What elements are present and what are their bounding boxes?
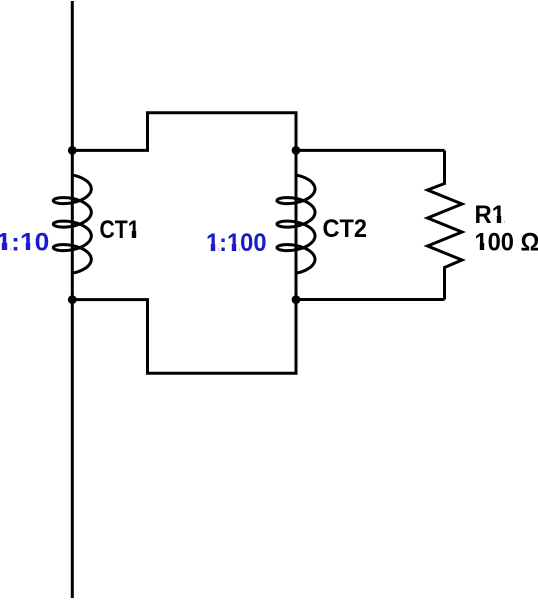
node: junction dot CT2 bottom <box>292 295 301 304</box>
svg-text:100 Ω: 100 Ω <box>475 229 538 257</box>
wire: CT1 top node to CT2 top (step up) <box>72 113 296 151</box>
wire: CT2 winding vertical <box>295 150 298 299</box>
wire: CT2 top node to R1 top <box>296 149 445 152</box>
patch: remove serif foot of a "1" in label 1:100 <box>207 247 218 252</box>
inductor winding CT1 <box>53 175 91 273</box>
svg-text:R1: R1 <box>475 201 506 229</box>
inductor winding CT2 <box>277 175 315 273</box>
wire: CT1 bottom node to CT2 bottom (step down) <box>72 300 296 374</box>
patch: remove serif foot of a "1" in label 1:10 <box>21 246 35 251</box>
svg-text:1:10: 1:10 <box>0 229 49 257</box>
wire: CT2 bottom node to R1 bottom <box>296 298 445 301</box>
patch: remove serif foot of a "1" in label R1 <box>492 219 504 224</box>
node: junction dot CT1 bottom <box>68 295 77 304</box>
node: junction dot CT2 top <box>292 146 301 155</box>
patch: remove serif foot of a "1" in label 1:10 <box>0 246 10 251</box>
patch: remove serif foot of a "1" in label CT1 <box>128 234 140 239</box>
svg-text:1:100: 1:100 <box>206 229 267 257</box>
patch: remove serif foot of a "1" in label 100 <box>475 246 488 251</box>
resistor R1 <box>428 150 463 299</box>
wire: main primary vertical line <box>71 1 74 598</box>
svg-text:CT2: CT2 <box>323 215 368 243</box>
node: junction dot CT1 top <box>68 146 77 155</box>
svg-text:CT1: CT1 <box>100 216 140 244</box>
patch: remove serif foot of a "1" in label 1:100 <box>228 247 239 252</box>
